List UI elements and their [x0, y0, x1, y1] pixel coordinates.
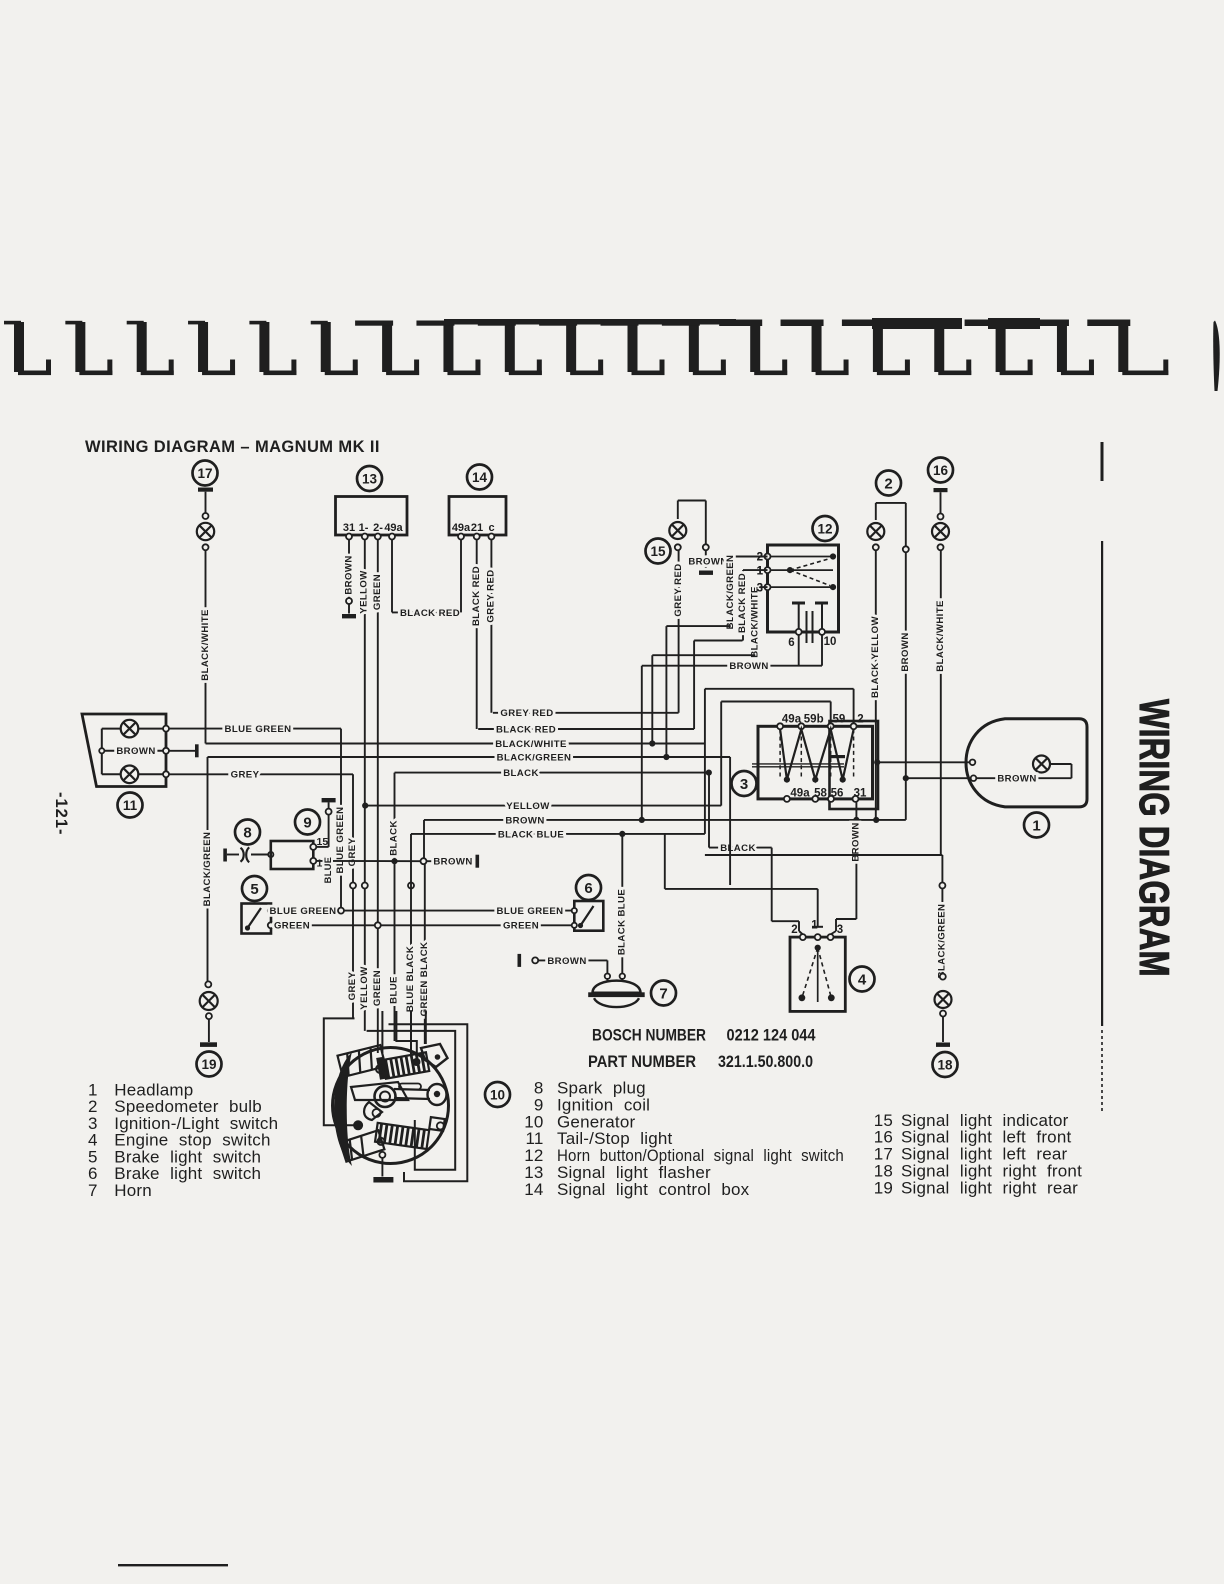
- svg-text:BROWN: BROWN: [729, 661, 768, 672]
- svg-text:GREEN: GREEN: [372, 574, 383, 610]
- svg-text:19: 19: [201, 1057, 216, 1072]
- svg-text:1: 1: [1032, 817, 1040, 834]
- svg-text:49a: 49a: [384, 522, 403, 534]
- svg-text:4: 4: [858, 971, 867, 988]
- svg-text:BLACK/WHITE: BLACK/WHITE: [495, 739, 567, 750]
- svg-text:16: 16: [933, 463, 949, 478]
- svg-text:BLUE GREEN: BLUE GREEN: [497, 906, 564, 917]
- svg-text:WIRING DIAGRAM: WIRING DIAGRAM: [1131, 699, 1178, 977]
- svg-text:13: 13: [362, 471, 378, 486]
- svg-text:2: 2: [757, 552, 763, 564]
- svg-text:BLACK/GREEN: BLACK/GREEN: [497, 752, 572, 763]
- svg-text:18: 18: [937, 1057, 953, 1072]
- svg-text:BLUE: BLUE: [389, 976, 400, 1004]
- svg-text:1: 1: [811, 920, 818, 932]
- svg-text:BLUE GREEN: BLUE GREEN: [225, 724, 292, 735]
- svg-text:11: 11: [123, 798, 138, 813]
- svg-text:1: 1: [317, 858, 323, 870]
- svg-text:GREY: GREY: [231, 770, 260, 781]
- svg-text:BLACK/WHITE: BLACK/WHITE: [935, 600, 946, 672]
- svg-text:BLUE BLACK: BLUE BLACK: [405, 946, 416, 1012]
- svg-text:12: 12: [817, 521, 832, 536]
- svg-text:BLACK/GREEN: BLACK/GREEN: [725, 555, 736, 630]
- svg-text:6: 6: [788, 637, 794, 649]
- svg-text:19: 19: [874, 1178, 893, 1197]
- svg-text:9: 9: [303, 814, 311, 831]
- svg-text:15: 15: [650, 544, 666, 559]
- svg-text:BLACK RED: BLACK RED: [737, 573, 748, 633]
- svg-text:321.1.50.800.0: 321.1.50.800.0: [718, 1052, 813, 1071]
- svg-text:GREY RED: GREY RED: [486, 569, 497, 622]
- svg-text:6: 6: [584, 880, 592, 897]
- svg-text:7: 7: [88, 1181, 98, 1200]
- svg-text:BROWN: BROWN: [433, 857, 472, 868]
- svg-text:14: 14: [524, 1180, 543, 1199]
- svg-text:21: 21: [471, 522, 483, 534]
- svg-text:3: 3: [837, 924, 843, 936]
- svg-text:3: 3: [757, 583, 763, 595]
- svg-text:GREY RED: GREY RED: [500, 708, 553, 719]
- svg-text:10: 10: [490, 1087, 505, 1102]
- svg-text:BLACK: BLACK: [389, 820, 400, 856]
- svg-text:31: 31: [343, 522, 355, 534]
- svg-text:BLACK RED: BLACK RED: [471, 566, 482, 626]
- svg-text:-121-: -121-: [52, 792, 70, 836]
- svg-text:c: c: [488, 522, 494, 534]
- svg-text:BLACK BLUE: BLACK BLUE: [617, 889, 628, 956]
- svg-text:Horn: Horn: [114, 1181, 152, 1200]
- svg-text:Signal light control box: Signal light control box: [557, 1180, 750, 1199]
- svg-text:BROWN: BROWN: [116, 746, 155, 757]
- svg-text:GREEN: GREEN: [372, 970, 383, 1006]
- svg-text:BOSCH NUMBER: BOSCH NUMBER: [592, 1026, 706, 1045]
- svg-text:14: 14: [472, 470, 488, 485]
- svg-text:3: 3: [740, 776, 748, 793]
- svg-text:BROWN: BROWN: [344, 555, 355, 594]
- svg-text:BROWN: BROWN: [900, 632, 911, 671]
- svg-text:BLACK: BLACK: [503, 768, 539, 779]
- svg-text:2: 2: [884, 475, 892, 492]
- svg-text:0212 124 044: 0212 124 044: [727, 1026, 816, 1045]
- svg-text:PART NUMBER: PART NUMBER: [588, 1052, 696, 1071]
- svg-text:49a: 49a: [790, 788, 810, 800]
- svg-text:BROWN: BROWN: [547, 956, 586, 967]
- svg-text:2: 2: [791, 924, 797, 936]
- svg-text:BROWN: BROWN: [688, 556, 727, 567]
- svg-text:BLACK RED: BLACK RED: [496, 724, 556, 735]
- svg-text:49a: 49a: [452, 522, 471, 534]
- svg-text:BLUE: BLUE: [323, 857, 333, 884]
- svg-text:15: 15: [317, 836, 329, 848]
- svg-text:BLACK/GREEN: BLACK/GREEN: [937, 904, 948, 979]
- svg-text:GREY: GREY: [347, 971, 358, 1000]
- svg-text:BLACK/WHITE: BLACK/WHITE: [749, 586, 760, 658]
- svg-text:YELLOW: YELLOW: [359, 966, 370, 1010]
- svg-text:1-: 1-: [359, 522, 369, 534]
- svg-text:59: 59: [833, 714, 846, 726]
- svg-text:2-: 2-: [373, 522, 383, 534]
- svg-text:7: 7: [659, 985, 667, 1002]
- svg-text:BLACK YELLOW: BLACK YELLOW: [870, 616, 881, 698]
- svg-text:59b: 59b: [804, 714, 824, 726]
- svg-text:BLACK BLUE: BLACK BLUE: [498, 829, 565, 840]
- svg-text:BLACK/WHITE: BLACK/WHITE: [200, 609, 211, 681]
- svg-text:BROWN: BROWN: [505, 815, 544, 826]
- svg-text:BLACK/GREEN: BLACK/GREEN: [202, 832, 213, 907]
- svg-text:BLUE GREEN: BLUE GREEN: [270, 906, 337, 917]
- svg-text:BLACK: BLACK: [720, 843, 756, 854]
- svg-text:GREEN BLACK: GREEN BLACK: [419, 942, 430, 1017]
- svg-text:BLACK RED: BLACK RED: [400, 608, 460, 619]
- svg-text:10: 10: [824, 636, 837, 648]
- svg-text:GREEN: GREEN: [274, 921, 310, 932]
- svg-text:5: 5: [250, 881, 258, 898]
- svg-text:GREY RED: GREY RED: [673, 563, 684, 616]
- svg-text:1: 1: [757, 566, 764, 578]
- svg-text:YELLOW: YELLOW: [506, 801, 550, 812]
- svg-text:GREY: GREY: [347, 837, 358, 866]
- svg-text:17: 17: [197, 466, 212, 481]
- svg-text:Signal light right rear: Signal light right rear: [901, 1178, 1078, 1197]
- svg-text:BROWN: BROWN: [997, 774, 1036, 785]
- svg-text:GREEN: GREEN: [503, 921, 539, 932]
- svg-text:YELLOW: YELLOW: [359, 570, 370, 614]
- svg-text:8: 8: [243, 824, 251, 841]
- svg-text:BLUE GREEN: BLUE GREEN: [335, 807, 346, 874]
- svg-text:WIRING DIAGRAM – MAGNUM MK II: WIRING DIAGRAM – MAGNUM MK II: [85, 438, 380, 456]
- svg-text:2: 2: [857, 714, 863, 726]
